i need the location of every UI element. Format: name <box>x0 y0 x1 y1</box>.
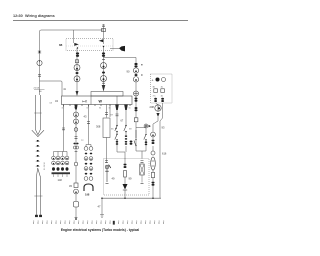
col126 switch <box>124 125 127 132</box>
wire branch to right stack <box>104 58 137 64</box>
gauge circle <box>133 68 138 73</box>
connector ticks col88 <box>87 122 90 124</box>
wire switch1 drop <box>73 30 75 43</box>
tall sender ellipse <box>151 157 156 170</box>
pin into box <box>102 85 106 92</box>
wire switch2 feed <box>103 24 105 44</box>
wire col146 <box>142 140 146 151</box>
svg-text:308: 308 <box>96 125 101 129</box>
col117 connector <box>116 114 119 116</box>
small component <box>151 173 154 178</box>
wire col110 stub <box>109 105 111 118</box>
svg-text:+: + <box>152 79 154 83</box>
right sensor stack col153: circle <box>151 132 156 137</box>
col76 connector oval <box>74 162 77 166</box>
header rule <box>13 20 188 22</box>
left feeder circle <box>37 60 42 65</box>
col76 pin <box>74 105 77 110</box>
col76 oval pairs <box>73 143 78 145</box>
battery dot open <box>162 78 166 82</box>
connector pair under S2 <box>102 52 105 57</box>
svg-text:21 04: 21 04 <box>34 88 40 90</box>
gauge circle <box>74 65 80 71</box>
stack col77: resistor <box>75 60 78 63</box>
switch S1 <box>74 43 79 49</box>
lower col107 connector <box>105 161 108 163</box>
lower col107 injector <box>105 165 111 182</box>
wire right stack down <box>135 82 137 91</box>
loom dotted <box>37 140 39 167</box>
warning lamp <box>155 105 161 111</box>
col76 sensor circle 2 <box>74 119 79 124</box>
stack col103: tick <box>102 59 105 61</box>
connector pair under S1 <box>76 52 79 57</box>
col76 circle <box>74 189 79 194</box>
connector pairs <box>154 98 157 100</box>
col76 end tick <box>75 215 77 217</box>
alternator symbol <box>134 91 139 96</box>
pin into box <box>76 91 79 96</box>
loom lower <box>34 168 42 216</box>
svg-text:86: 86 <box>99 108 101 110</box>
double stack col86/91 <box>84 147 93 181</box>
connector <box>102 72 105 74</box>
wire relay to box <box>106 138 108 164</box>
col117 switch lower <box>115 134 118 141</box>
wire relay feed <box>106 105 108 118</box>
switch S2 <box>99 39 104 47</box>
wire left col63 <box>63 105 65 152</box>
wire mid col76 <box>75 110 77 163</box>
wire mid col136 to switch <box>135 128 137 149</box>
col76 ticks <box>75 137 78 139</box>
wire switch1 to stack <box>76 48 78 95</box>
svg-text:198: 198 <box>85 193 90 197</box>
horn <box>119 46 125 52</box>
small circle <box>151 151 155 155</box>
lambda arch <box>84 184 93 191</box>
wire ground bus <box>102 197 161 199</box>
loom end bar <box>35 215 38 217</box>
svg-text:W: W <box>99 100 103 104</box>
svg-text:132: 132 <box>58 178 63 182</box>
fuse <box>134 118 138 122</box>
col76 sensor circle 1 <box>74 112 79 117</box>
connector <box>76 72 79 74</box>
loom upper <box>32 95 44 137</box>
wire right col153 <box>153 117 158 132</box>
gauge circle 2 <box>74 76 80 82</box>
svg-text:⊢K: ⊢K <box>82 100 88 104</box>
wire top loop H1 <box>40 30 104 95</box>
wire horn stem <box>110 48 119 50</box>
svg-text:616: 616 <box>162 152 167 156</box>
control box upper compartment <box>91 92 123 97</box>
fuse F1 <box>154 89 158 93</box>
wire link mid right <box>136 127 146 129</box>
col117 switch upper <box>115 125 118 132</box>
wire col117 <box>116 110 118 126</box>
svg-text:12•30: 12•30 <box>13 14 23 18</box>
dashed box switches B1 <box>66 39 113 51</box>
fuse at feed of S2 <box>102 28 106 31</box>
right dashed box B3 <box>151 74 173 103</box>
wire col88 <box>88 105 90 145</box>
sensor dot <box>144 124 148 128</box>
lower col125 connectors <box>124 164 127 166</box>
lower col125 resistor <box>124 171 127 178</box>
wire switch2 down + branch right <box>103 47 105 85</box>
connector ticks col63 <box>62 128 65 130</box>
wire pair feed bar <box>86 145 91 148</box>
col76 small box <box>74 183 78 188</box>
svg-text:87: 87 <box>87 108 89 110</box>
connector pair <box>38 75 41 77</box>
box bottom pin trapezoids <box>115 105 119 111</box>
col76 small circle <box>74 128 78 132</box>
row of connectors y142 <box>116 141 119 143</box>
svg-text:15: 15 <box>129 108 131 110</box>
pin number labels under box <box>62 108 131 110</box>
wire right col160 <box>160 103 163 198</box>
svg-text:Engine electrical systems (Tur: Engine electrical systems (Turbo models)… <box>61 228 139 232</box>
wire grid header <box>54 152 68 157</box>
box bottom pins <box>64 105 131 107</box>
earth tick row <box>34 222 164 224</box>
wire col126 <box>125 110 127 136</box>
col146 switch <box>144 134 147 141</box>
svg-text:Wiring diagrams: Wiring diagrams <box>25 14 55 18</box>
lamp pin <box>156 113 159 117</box>
earth marker B <box>113 221 115 225</box>
lower dashed box <box>104 159 150 196</box>
fuse F2 <box>161 89 165 93</box>
gauge circle 2 <box>101 76 107 82</box>
connector pair <box>152 140 155 142</box>
svg-text:30: 30 <box>109 108 111 110</box>
col136 switch <box>134 130 137 146</box>
svg-text:208: 208 <box>150 105 155 109</box>
svg-text:21 04 96: 21 04 96 <box>44 161 46 170</box>
wire lower mid col125 <box>124 177 126 184</box>
wire branch to control box <box>40 81 63 96</box>
ignition coil grid <box>52 156 71 182</box>
control box K/W <box>55 96 132 105</box>
wire bulb feed <box>156 103 158 105</box>
lower col142 solenoid <box>140 164 144 175</box>
col76 rounded box <box>74 202 79 208</box>
svg-text:88: 88 <box>59 43 63 47</box>
gauge circle 2 <box>133 77 138 82</box>
wire bus drop47 <box>101 198 103 214</box>
gauge circle <box>101 63 107 69</box>
grid bus bar <box>52 172 71 174</box>
bus drop end <box>100 215 104 218</box>
diode arrow <box>123 184 128 190</box>
relay feed connector <box>105 113 108 115</box>
coil columns <box>52 156 69 165</box>
lower col142 connector <box>141 161 144 163</box>
connector <box>135 74 138 76</box>
bus junction dots <box>124 197 126 199</box>
col126 contact marks <box>125 136 127 140</box>
svg-text:31: 31 <box>62 108 64 110</box>
connector <box>152 182 155 184</box>
relay box 308 <box>103 118 110 138</box>
connector pair <box>135 107 138 109</box>
right stack col136: connectors <box>134 63 137 65</box>
battery dot filled <box>156 78 160 82</box>
connector pair <box>135 98 138 100</box>
connector dot <box>39 51 41 53</box>
col76 tick <box>75 151 78 153</box>
